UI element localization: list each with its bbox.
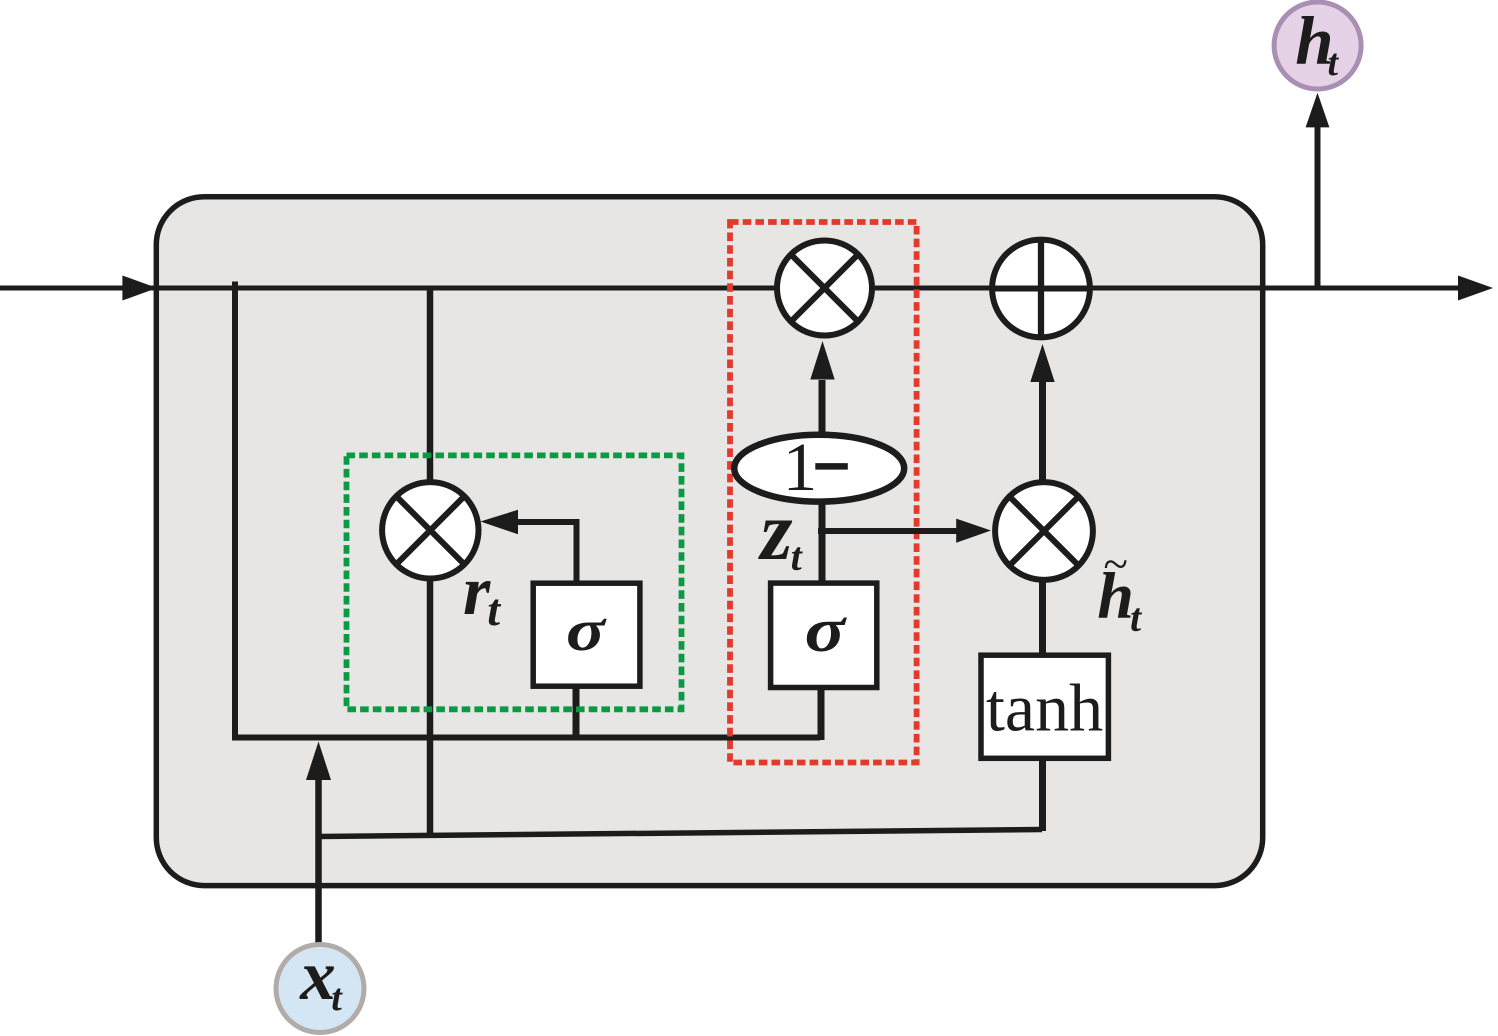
svg-text:t: t bbox=[331, 977, 343, 1019]
wire: main hidden-state line h(t-1) to h(t) bbox=[0, 286, 1461, 291]
arrowhead output (right) bbox=[1458, 276, 1493, 301]
wire: tanh top to candidate multiply bbox=[1039, 582, 1046, 657]
svg-text:t: t bbox=[1328, 42, 1340, 84]
node: h(t) output circle bbox=[1274, 2, 1361, 89]
arrowhead into reset multiply bbox=[480, 510, 518, 535]
svg-text:tanh: tanh bbox=[986, 670, 1103, 746]
arrowhead into candidate multiply bbox=[956, 519, 991, 543]
arrowhead into top multiply bbox=[810, 341, 834, 380]
label: h-tilde(t) bbox=[1097, 539, 1143, 640]
wire: x(t) input vertical bbox=[315, 780, 322, 946]
wire: candidate multiply up to add circle bbox=[1039, 378, 1046, 482]
box: tanh bbox=[981, 655, 1108, 758]
wire: stub up to tanh bottom bbox=[1039, 757, 1046, 831]
wire: h(t) output vertical bbox=[1315, 125, 1321, 288]
svg-text:t: t bbox=[791, 534, 804, 579]
box: sigma (reset gate) bbox=[533, 583, 640, 686]
operator: candidate multiply circle bbox=[995, 482, 1093, 580]
arrowhead into add circle bbox=[1030, 344, 1054, 382]
node: x(t) input circle bbox=[276, 937, 364, 1033]
arrowhead into cell (left) bbox=[122, 276, 157, 301]
GRU cell body bbox=[156, 197, 1262, 886]
box: sigma (update gate) bbox=[771, 583, 877, 687]
wire: 1- ellipse up to top multiply bbox=[819, 380, 826, 438]
arrowhead x(t) into lower bus bbox=[306, 742, 331, 781]
svg-text:σ: σ bbox=[805, 594, 847, 665]
operator: reset multiply circle bbox=[382, 482, 478, 578]
svg-text:z: z bbox=[758, 485, 793, 578]
wire: stub sigma-z bottom to bus bbox=[818, 685, 825, 740]
wire: vertical at x=430 below reset multiply bbox=[427, 576, 434, 835]
green dashed region (reset gate) bbox=[347, 455, 682, 709]
wire: stub sigma-r bottom to bus bbox=[573, 685, 580, 740]
operator: top multiply circle bbox=[777, 241, 872, 336]
label: z(t) bbox=[758, 485, 804, 579]
svg-text:t: t bbox=[487, 584, 501, 635]
operator: add circle bbox=[992, 240, 1090, 338]
wire: sigma-r top to reset multiply bbox=[516, 522, 577, 585]
operator: 1- ellipse bbox=[734, 429, 904, 505]
wire: vertical branch at x=235 down to lower bus bbox=[235, 282, 820, 738]
wire: sigma-z top up to 1- ellipse bbox=[819, 500, 826, 584]
wire: bottom bus from x(t) to tanh bbox=[319, 830, 1043, 837]
svg-text:t: t bbox=[1130, 595, 1143, 640]
svg-text:~: ~ bbox=[1104, 539, 1128, 589]
wire: z(t) branch right to candidate multiply bbox=[818, 528, 958, 534]
arrowhead into h(t) circle bbox=[1306, 93, 1330, 128]
label: r(t) bbox=[463, 553, 501, 635]
wire: vertical branch at x=430 upper part bbox=[427, 288, 434, 485]
svg-text:σ: σ bbox=[566, 597, 608, 663]
red dashed region (update gate) bbox=[730, 222, 917, 763]
